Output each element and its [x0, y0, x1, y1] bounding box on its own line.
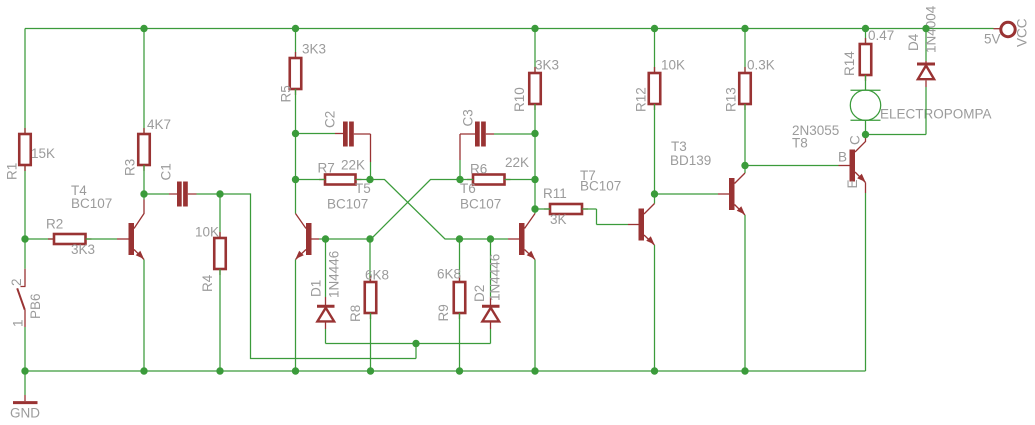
node T5 collector / R7 left junction	[292, 176, 299, 183]
wire cross-coupling B (R6 left to T5 base row)	[371, 180, 460, 240]
svg-text:T3: T3	[671, 139, 687, 154]
wire T7 collector to T3 base	[655, 193, 719, 195]
svg-text:C: C	[848, 135, 863, 145]
wire C1 node to trigger line (jog right and down)	[220, 194, 416, 359]
resistor R14	[842, 28, 894, 90]
wire R5 to T5 collector node	[295, 134, 297, 180]
node D2 top junction	[487, 235, 494, 242]
svg-text:10K: 10K	[195, 225, 219, 240]
resistor R10	[512, 29, 559, 210]
svg-text:R8: R8	[348, 305, 363, 322]
wire T5 base line	[319, 238, 370, 240]
svg-text:5V: 5V	[984, 32, 1001, 47]
svg-text:6K8: 6K8	[365, 268, 389, 283]
wire bottom ground rail	[25, 370, 866, 372]
transistor T4 BC107	[71, 183, 144, 371]
node top rail / R13	[741, 25, 748, 32]
svg-text:R10: R10	[512, 87, 527, 112]
wire T6 base line	[460, 238, 509, 240]
svg-text:B: B	[838, 150, 847, 165]
resistor R4	[195, 194, 226, 371]
node D1 top junction	[322, 235, 329, 242]
svg-text:R2: R2	[46, 217, 63, 232]
diode D4 1N4004	[906, 5, 939, 134]
svg-text:R7: R7	[318, 161, 335, 176]
svg-text:22K: 22K	[505, 155, 529, 170]
node top rail / D4	[922, 25, 929, 32]
node trigger/diode-line junction	[412, 340, 419, 347]
svg-text:6K8: 6K8	[437, 267, 461, 282]
node R8 top / cross-wire junction	[366, 235, 373, 242]
node C1/R4 junction	[216, 190, 223, 197]
svg-text:BC107: BC107	[460, 197, 501, 212]
ground symbol GND	[10, 371, 40, 421]
svg-text:R13: R13	[724, 87, 739, 112]
svg-text:PB6: PB6	[28, 293, 43, 319]
svg-text:R1: R1	[5, 163, 20, 180]
svg-text:BD139: BD139	[670, 153, 711, 168]
wire T8 emitter vertical to ground rail	[865, 193, 867, 371]
node R2/left-rail junction	[21, 235, 28, 242]
transistor T5 BC107 (mirrored)	[296, 180, 371, 372]
svg-text:4K7: 4K7	[147, 117, 171, 132]
node top rail / R3	[140, 25, 147, 32]
svg-text:1N4446: 1N4446	[488, 254, 503, 301]
svg-text:R12: R12	[634, 87, 649, 112]
node top rail / R14	[862, 25, 869, 32]
node top rail / R10	[531, 25, 538, 32]
svg-text:10K: 10K	[661, 58, 685, 73]
resistor R3	[123, 29, 172, 195]
svg-text:3K3: 3K3	[535, 58, 559, 73]
svg-text:R3: R3	[123, 159, 138, 176]
svg-text:22K: 22K	[341, 158, 365, 173]
capacitor C2	[296, 111, 371, 180]
svg-text:0.47: 0.47	[868, 28, 894, 43]
resistor R2	[25, 217, 117, 258]
svg-text:15K: 15K	[31, 146, 55, 161]
node C2 left junction	[292, 130, 299, 137]
bottom rail junction nodes	[21, 367, 28, 374]
node top rail / R12	[651, 25, 658, 32]
motor ELECTROPOMPA	[850, 90, 991, 135]
svg-text:C2: C2	[323, 111, 338, 128]
transistor T3 BD139	[670, 139, 745, 371]
svg-text:C1: C1	[159, 163, 174, 180]
svg-text:BC107: BC107	[327, 197, 368, 212]
svg-text:3K3: 3K3	[71, 242, 95, 257]
supply pin VCC 5V	[984, 18, 1030, 47]
wire diode common line D1-D2	[326, 343, 491, 345]
resistor R1	[5, 128, 56, 180]
svg-text:T5: T5	[355, 181, 371, 196]
resistor R11	[535, 186, 628, 227]
svg-text:VCC: VCC	[1015, 18, 1030, 47]
capacitor C1	[144, 163, 220, 206]
svg-text:E: E	[845, 179, 860, 188]
diode D1 1N4446	[309, 239, 342, 344]
wire left rail (VCC side down to switch)	[24, 29, 26, 269]
svg-text:1: 1	[11, 319, 26, 327]
node T4 collector junction	[140, 190, 147, 197]
node T6 collector / R11 left junction	[531, 205, 538, 212]
resistor R13	[724, 29, 775, 166]
node T3 collector / R13 junction	[741, 162, 748, 169]
svg-text:R11: R11	[543, 186, 567, 201]
switch PB6	[9, 269, 43, 327]
resistor R9	[436, 239, 465, 371]
svg-text:3K: 3K	[550, 212, 567, 227]
svg-text:R9: R9	[436, 304, 451, 321]
wire top VCC rail	[25, 28, 994, 30]
svg-text:0.3K: 0.3K	[747, 58, 775, 73]
svg-text:ELECTROPOMPA: ELECTROPOMPA	[880, 107, 992, 122]
wire trigger stub up to diode line	[415, 344, 417, 359]
node pump / T8 collector / D4 junction	[862, 131, 869, 138]
wire pump node to D4	[866, 134, 927, 136]
resistor R8	[348, 239, 389, 371]
resistor R6	[460, 155, 535, 185]
node R6 right junction on R10 line	[531, 176, 538, 183]
node top rail / R5	[292, 25, 299, 32]
node C3 right junction	[531, 130, 538, 137]
svg-text:R14: R14	[842, 51, 857, 76]
node R6 left / C3 left junction	[456, 176, 463, 183]
svg-text:R5: R5	[279, 85, 294, 102]
capacitor C3 (mirrored)	[460, 109, 535, 179]
svg-text:T8: T8	[792, 136, 808, 151]
svg-text:T6: T6	[460, 181, 476, 196]
svg-text:BC107: BC107	[580, 179, 621, 194]
svg-text:GND: GND	[10, 406, 40, 421]
transistor T6 BC107	[460, 181, 535, 371]
svg-text:2: 2	[9, 278, 24, 286]
svg-text:D4: D4	[906, 33, 921, 51]
resistor R12	[634, 29, 686, 195]
node T7 collector / R12 junction	[651, 190, 658, 197]
node R9 top / cross-wire junction	[456, 235, 463, 242]
resistor R5	[279, 29, 327, 134]
svg-text:3K3: 3K3	[302, 42, 326, 57]
transistor T7 BC107	[580, 168, 655, 371]
resistor R7	[296, 158, 371, 185]
svg-text:D2: D2	[472, 285, 487, 302]
svg-text:C3: C3	[461, 109, 476, 126]
wire left rail below switch to ground rail	[24, 327, 26, 371]
svg-text:BC107: BC107	[71, 196, 112, 211]
node R7 right / C2 right junction	[366, 176, 373, 183]
wire cross-coupling A (R7 right to T6 base row)	[370, 180, 460, 240]
svg-text:R6: R6	[470, 162, 487, 177]
svg-text:1N4446: 1N4446	[327, 251, 342, 298]
svg-text:R4: R4	[200, 274, 215, 292]
wire T3 collector to T8 base	[745, 165, 839, 167]
transistor T8 2N3055	[792, 123, 866, 193]
svg-text:D1: D1	[309, 280, 324, 297]
diode D2 1N4446	[472, 239, 503, 344]
